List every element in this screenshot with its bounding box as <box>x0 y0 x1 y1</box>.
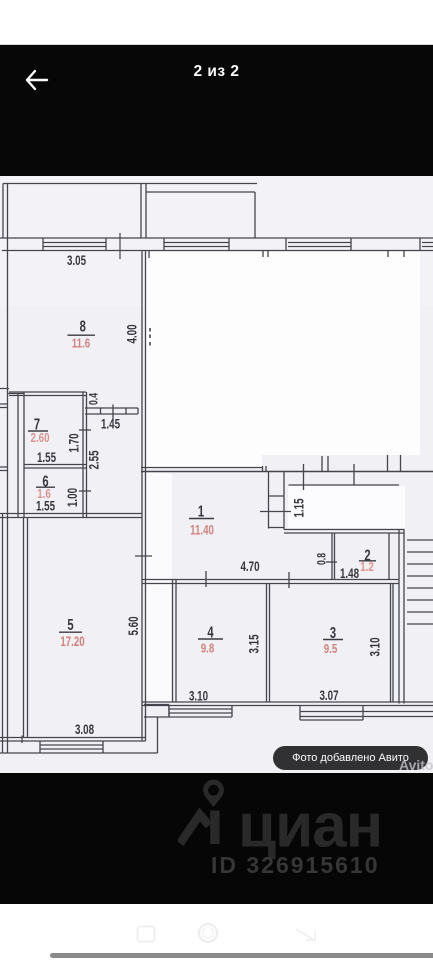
tick at wall joint <box>21 736 23 744</box>
balcony 1 left wall <box>3 184 8 239</box>
svg-text:3.05: 3.05 <box>67 252 86 268</box>
window hatch below room 4 <box>169 706 232 718</box>
svg-text:циан: циан <box>238 792 382 861</box>
svg-text:1.55: 1.55 <box>37 449 56 465</box>
svg-text:1.00: 1.00 <box>64 488 80 507</box>
top outer wall <box>0 238 433 251</box>
vent shaft column <box>269 472 285 530</box>
nav home circle <box>197 922 219 944</box>
svg-text:3.07: 3.07 <box>319 687 338 703</box>
window hatch 1 <box>43 243 106 247</box>
corner box <box>144 705 232 718</box>
dim tick 5.60 <box>135 555 152 557</box>
room 2 left wall <box>332 533 335 580</box>
room 2 right wall <box>388 533 390 580</box>
photo added by avito pill <box>273 746 428 770</box>
rooms 4-3 divider <box>267 584 270 703</box>
dim tick 4.70 <box>205 571 207 587</box>
svg-text:1.55: 1.55 <box>36 498 55 514</box>
staircase treads <box>407 540 433 624</box>
nav recents square <box>136 925 156 943</box>
plan paper background <box>0 176 433 773</box>
svg-text:1: 1 <box>198 501 204 520</box>
rooms 3-4 top wall <box>142 580 399 584</box>
room 4 left wall <box>173 580 177 703</box>
window hatch 3 <box>288 243 351 247</box>
svg-text:1.45: 1.45 <box>101 416 120 432</box>
band wall <box>289 484 400 486</box>
dim tick 1.70 <box>79 429 91 431</box>
corridor top band <box>85 408 138 414</box>
dashed door marks <box>149 328 151 346</box>
mountain <box>180 815 209 844</box>
staircase wall <box>399 530 404 704</box>
svg-text:2.60: 2.60 <box>31 432 50 446</box>
top black bar <box>0 45 433 176</box>
room 6 bottom / room 5 top wall <box>0 514 142 518</box>
back arrow <box>24 68 50 92</box>
white erased region top-right <box>146 252 420 455</box>
svg-text:3.08: 3.08 <box>75 721 94 737</box>
bottom wall rooms 3-4 <box>142 702 433 706</box>
svg-text:ID 326915610: ID 326915610 <box>211 852 380 877</box>
svg-text:4: 4 <box>207 622 213 641</box>
rooms 7-6 divider <box>24 465 87 469</box>
room 5 left wall <box>24 518 28 738</box>
home indicator bar <box>50 953 433 958</box>
dim tick 0.8 <box>326 561 337 563</box>
room 8 bottom wall <box>8 392 87 396</box>
svg-text:2.55: 2.55 <box>86 450 102 469</box>
svg-text:4.00: 4.00 <box>124 324 140 343</box>
status bar (white) <box>0 0 433 45</box>
room 3 right wall <box>391 584 394 703</box>
nav back chevron <box>294 925 320 945</box>
svg-text:11.6: 11.6 <box>72 337 90 351</box>
room 2 top wall <box>284 530 405 534</box>
window hatch below room 3 <box>300 706 433 721</box>
title 2 из 2 <box>0 63 433 81</box>
bottom white nav bar <box>0 904 433 960</box>
small ticks below top wall <box>149 251 404 258</box>
svg-text:7: 7 <box>34 414 40 433</box>
white erased region corner <box>146 455 262 468</box>
room 7 right wall <box>83 392 87 517</box>
dim tick 1.00 <box>79 490 91 492</box>
window hatch 4 <box>422 243 433 247</box>
svg-text:3: 3 <box>330 623 336 642</box>
svg-text:0.8: 0.8 <box>316 553 329 565</box>
left outer wall <box>3 238 8 753</box>
svg-text:9.5: 9.5 <box>324 643 338 657</box>
white erased region above room2 <box>288 486 405 528</box>
bottom black area <box>0 773 433 904</box>
dim tick 1.45 <box>112 405 114 420</box>
left wall stubs <box>0 389 9 471</box>
balcony 2 <box>146 192 255 238</box>
svg-text:8: 8 <box>80 316 86 335</box>
dim tick 3.05 <box>119 233 121 259</box>
pin outline <box>203 780 224 808</box>
svg-text:3.10: 3.10 <box>367 637 383 656</box>
svg-text:5: 5 <box>67 615 73 634</box>
svg-text:3.15: 3.15 <box>246 634 262 653</box>
window hatch below room 5 <box>40 741 103 753</box>
pin needle bar <box>210 811 219 845</box>
dim tick 1.15 <box>260 511 291 513</box>
dim tick 1.48 <box>288 572 290 588</box>
avito ghost watermark <box>399 757 433 773</box>
white corridor strip <box>146 473 172 702</box>
svg-text:1.70: 1.70 <box>66 433 82 452</box>
svg-text:9.8: 9.8 <box>201 642 215 656</box>
svg-text:1.2: 1.2 <box>360 561 374 575</box>
inner shaft walls <box>18 392 24 517</box>
svg-text:17.20: 17.20 <box>60 634 85 649</box>
svg-text:4.70: 4.70 <box>240 558 259 574</box>
tick crossing band <box>304 464 355 490</box>
room 1 top wall <box>141 467 262 469</box>
room 8 right wall <box>142 251 146 742</box>
corner step wall <box>157 717 159 753</box>
bottom outer edge <box>0 752 158 754</box>
svg-text:0.4: 0.4 <box>88 393 101 405</box>
window hatch 2 <box>164 243 229 247</box>
svg-text:11.40: 11.40 <box>190 523 214 538</box>
room 5 bottom wall <box>0 738 146 742</box>
ticks above room 1 wall <box>263 455 401 472</box>
wall pier joints <box>43 238 420 251</box>
balcony top edge <box>3 183 257 185</box>
cian watermark logo <box>178 777 388 877</box>
svg-text:3.10: 3.10 <box>189 688 208 704</box>
svg-text:1.15: 1.15 <box>291 498 307 517</box>
svg-text:5.60: 5.60 <box>125 616 141 635</box>
balcony divider wall <box>141 184 146 239</box>
svg-text:1.48: 1.48 <box>340 565 359 581</box>
